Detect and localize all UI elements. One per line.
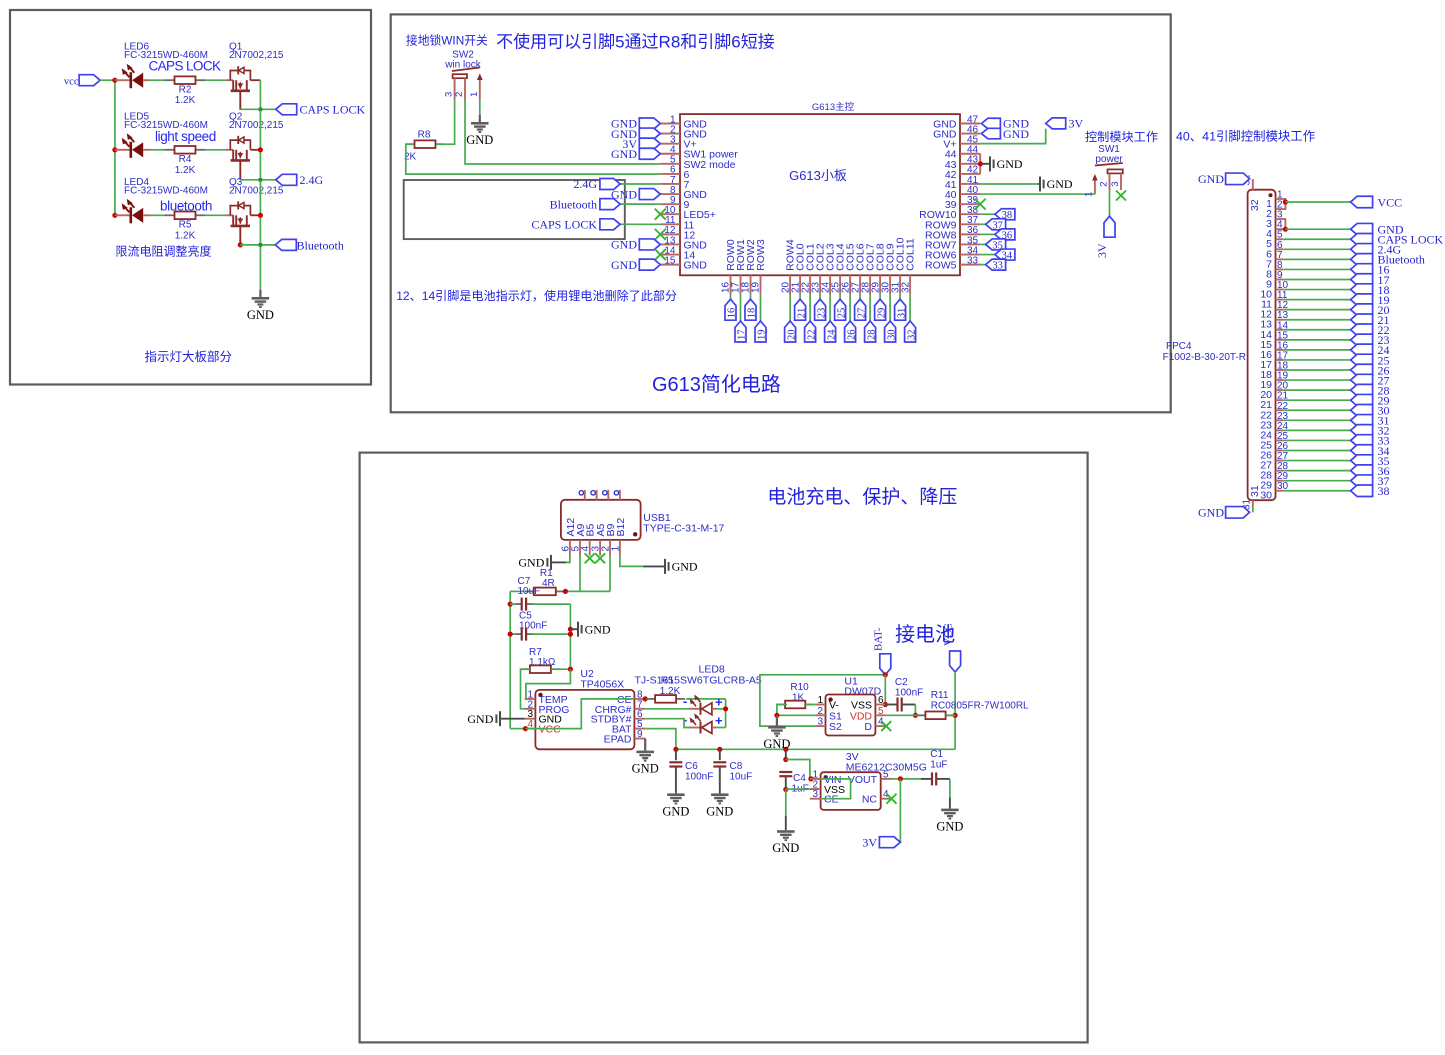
USB1 pin 6 A12 [569, 540, 571, 556]
ground GND box1 [259, 290, 261, 297]
svg-text:G613小板: G613小板 [789, 168, 847, 183]
net flag 18 [745, 299, 756, 320]
net flag 31 [895, 299, 906, 320]
net flag 37 [986, 219, 1006, 230]
net flag 30 [1351, 405, 1373, 417]
G613 pin 37 ROW9 [960, 223, 980, 225]
svg-text:20: 20 [786, 330, 797, 341]
wire FPC pin 26 to flag 34 [1283, 450, 1350, 452]
G613 pin 3 V+ [660, 143, 680, 145]
U2 pin 3 GND [525, 718, 536, 720]
G613 pin 36 ROW8 [960, 233, 980, 235]
svg-text:NC: NC [862, 794, 878, 806]
net flag Bluetooth [275, 239, 296, 250]
wire pin28 to flag [869, 294, 871, 321]
USB1 pin 1 B12 [619, 540, 621, 556]
svg-text:100nF: 100nF [895, 688, 923, 699]
net flag 24 [825, 321, 836, 342]
wire SW2 pin3 to R8 [436, 100, 455, 144]
wire FPC pin 19 to flag 27 [1283, 379, 1350, 381]
net flag 3V under SW1 [1104, 216, 1115, 237]
wire U2 pin9 EPAD to gnd [644, 739, 646, 751]
svg-text:TYPE-C-31-M-17: TYPE-C-31-M-17 [643, 523, 724, 535]
wire VCC flag down to bus [954, 672, 956, 749]
wire pin34 to flag [980, 254, 995, 256]
net flag 19 [1351, 294, 1373, 306]
svg-text:5: 5 [883, 769, 889, 780]
svg-text:10uF: 10uF [730, 772, 753, 783]
svg-text:GND: GND [706, 804, 733, 818]
FPC pin 6 [1276, 248, 1284, 250]
svg-text:控制模块工作: 控制模块工作 [1085, 130, 1158, 144]
net flag Bluetooth [1351, 254, 1373, 265]
net flag GND at G613 pin 2 [639, 128, 660, 139]
svg-text:3V: 3V [1095, 243, 1109, 258]
wire pin21 to flag [799, 294, 801, 299]
G613 pin 14 14 [660, 254, 680, 256]
wire CHRG# to LED8 d1 [645, 708, 689, 710]
wire USB pin5 down [579, 556, 581, 592]
net flag CAPS LOCK [1351, 233, 1373, 245]
FPC pin 26 [1276, 450, 1284, 452]
svg-text:16: 16 [727, 308, 738, 319]
FPC pin 29 [1276, 480, 1284, 482]
svg-text:GND: GND [672, 560, 698, 574]
G613 pin 30 COL9 [889, 275, 891, 294]
svg-text:100nF: 100nF [519, 621, 547, 632]
svg-text:+: + [715, 694, 723, 709]
net flag 23 [815, 299, 826, 320]
FPC pin 23 [1276, 419, 1284, 421]
U2 pin 4 VCC [525, 728, 536, 730]
svg-text:GND: GND [997, 157, 1023, 171]
FPC pin 5 [1276, 238, 1284, 240]
U1 pin 2 S1 [815, 714, 825, 716]
svg-text:12、14引脚是电池指示灯，使用锂电池删除了此部分: 12、14引脚是电池指示灯，使用锂电池删除了此部分 [396, 288, 677, 303]
U2 pin 9 EPAD [634, 738, 645, 740]
wire pin22 to flag [809, 294, 811, 321]
net flag 23 [1351, 334, 1373, 346]
svg-text:18: 18 [747, 308, 758, 319]
wire BAT- down to VSS [884, 675, 886, 705]
svg-text:30: 30 [886, 330, 897, 341]
svg-text:RC0805FR-7W100RL: RC0805FR-7W100RL [931, 701, 1029, 712]
U1 pin 5 VDD [875, 714, 885, 716]
wire pin35 to flag [980, 243, 985, 245]
wire C4 bottom to gnd [785, 790, 787, 816]
wire CE strap to VIN [821, 779, 851, 799]
net flag GND at G613 pin 8 [639, 189, 660, 200]
wire VOUT right [891, 778, 921, 780]
G613 pin 41 41 [960, 183, 980, 185]
svg-text:vcc: vcc [64, 76, 79, 87]
svg-text:SW2 mode: SW2 mode [684, 159, 736, 171]
U2 pin 5 BAT [634, 728, 645, 730]
right bus vertical C7-C5 [569, 604, 571, 669]
svg-text:4: 4 [580, 546, 591, 552]
net flag CAPS LOCK [276, 104, 297, 115]
resistor R5 1.2K [165, 214, 175, 216]
FPC pin 31 bottom [1252, 500, 1254, 508]
net flag 29 [875, 299, 886, 320]
svg-text:32: 32 [906, 330, 917, 341]
svg-text:FC-3215WD-460M: FC-3215WD-460M [124, 185, 208, 196]
net flag 30 [885, 321, 896, 342]
G613 pin 29 COL8 [879, 275, 881, 294]
USB1 pin 5 A9 [579, 540, 581, 556]
capacitor C6 100nF [675, 749, 677, 760]
svg-text:3: 3 [444, 92, 455, 97]
svg-text:1: 1 [469, 92, 480, 97]
svg-text:100nF: 100nF [685, 772, 713, 783]
svg-text:31: 31 [896, 308, 907, 319]
svg-text:ROW3: ROW3 [755, 239, 767, 271]
G613 pin 32 COL11 [909, 275, 911, 294]
frame: G613 main section [391, 14, 1171, 412]
svg-text:GND: GND [936, 820, 963, 834]
wire FPC pin 16 to flag 24 [1283, 349, 1350, 351]
power ground GND at U2 pin3 [500, 718, 525, 720]
G613 pin 28 COL7 [869, 275, 871, 294]
wire R10 left down to S1 [777, 705, 816, 716]
G613 pin 6 6 [660, 173, 680, 175]
ME6212 pin 1 VIN [810, 778, 821, 780]
svg-text:25: 25 [836, 308, 847, 319]
no-connect X at G613 pin 14 [655, 249, 666, 260]
G613 pin 24 COL3 [829, 275, 831, 294]
svg-text:light speed: light speed [155, 129, 216, 144]
no-connect X USB pin 4 [585, 553, 595, 563]
svg-text:31: 31 [1249, 485, 1261, 497]
svg-text:GND: GND [247, 308, 274, 322]
svg-text:限流电阻调整亮度: 限流电阻调整亮度 [116, 244, 212, 259]
net flag 35 [1351, 455, 1373, 467]
FPC pin 21 [1276, 399, 1284, 401]
net flag 26 [845, 321, 856, 342]
main battery bus [676, 748, 955, 750]
svg-text:38: 38 [1378, 484, 1390, 498]
net flag GND at G613 pin 15 [639, 259, 660, 270]
svg-text:10uF: 10uF [518, 586, 541, 597]
svg-text:VCC: VCC [1378, 195, 1403, 209]
svg-text:+: + [715, 713, 723, 728]
svg-text:3: 3 [817, 717, 823, 728]
svg-text:F1002-B-30-20T-R: F1002-B-30-20T-R [1163, 352, 1246, 363]
svg-text:S2: S2 [829, 721, 842, 733]
svg-text:TP4056X: TP4056X [580, 679, 624, 691]
wire pin32 to flag [909, 294, 911, 321]
net flag 21 [795, 299, 806, 320]
G613 pin 9 9 [660, 203, 680, 205]
wire FPC pin 10 to flag 18 [1283, 289, 1350, 291]
G613 pin 42 42 [960, 173, 980, 175]
ME6212 pin 5 VOUT [881, 778, 891, 780]
FPC pin 14 [1276, 329, 1284, 331]
svg-text:29: 29 [876, 308, 887, 319]
svg-text:2N7002,215: 2N7002,215 [229, 120, 284, 131]
wire R5 right to LED bus [686, 698, 726, 700]
svg-text:24: 24 [826, 329, 837, 340]
wire pin18 to flag [750, 294, 752, 299]
left vertical bus to VCC U2 [509, 591, 511, 728]
U2 pin 2 PROG [525, 708, 536, 710]
wire pin24 to flag [829, 294, 831, 321]
USB1 shield pin [619, 490, 621, 500]
wire R1 left to bus [510, 590, 524, 592]
svg-text:15: 15 [664, 255, 676, 266]
junction LED5 row [112, 147, 117, 152]
inner box around 2.4G Bluetooth CAPS LOCK flags [404, 180, 625, 239]
wire pin37 to flag [980, 223, 985, 225]
G613 pin 19 ROW3 [760, 275, 762, 294]
net flag 35 [986, 239, 1006, 250]
wire FPC pin 21 to flag 29 [1283, 399, 1350, 401]
connector USB1 TYPE-C-31-M-17 [561, 500, 641, 540]
svg-text:2: 2 [454, 92, 465, 97]
FPC pin 19 [1276, 379, 1284, 381]
net flag 16 [1351, 264, 1373, 276]
svg-text:Bluetooth: Bluetooth [297, 238, 344, 252]
svg-text:2: 2 [817, 706, 823, 717]
ME6212 pin 2 VSS [810, 788, 821, 790]
wire FPC pin 18 to flag 26 [1283, 369, 1350, 371]
wire LED bus right [725, 699, 727, 728]
wire Q1 drain to bus [250, 79, 260, 81]
svg-text:GND: GND [611, 147, 637, 161]
ME6212 pin 3 CE [810, 798, 821, 800]
net flag 20 [1351, 304, 1373, 316]
G613 pin 44 44 [960, 153, 980, 155]
svg-text:9: 9 [637, 729, 643, 740]
ground GND under EPAD [636, 751, 654, 762]
FPC pin 28 [1276, 470, 1284, 472]
U1 pin 4 D [875, 725, 885, 727]
wire pin40 long to SW1 [980, 193, 1095, 195]
svg-text:BAT-: BAT- [873, 627, 885, 651]
G613 pin 40 40 [960, 193, 980, 195]
svg-text:R4: R4 [179, 154, 192, 165]
svg-text:R8: R8 [418, 130, 431, 141]
svg-text:EPAD: EPAD [604, 734, 632, 746]
no-connect X at G613 pin 10 [655, 209, 666, 220]
wire FPC pin 13 to flag 21 [1283, 319, 1350, 321]
svg-text:1: 1 [817, 695, 823, 706]
net flag GND at G613 pin 47 [981, 118, 1000, 129]
G613 pin 39 39 [960, 203, 980, 205]
svg-text:1.2K: 1.2K [175, 165, 196, 176]
G613 pin 18 ROW2 [750, 275, 752, 294]
svg-text:32: 32 [1249, 199, 1261, 211]
G613 pin 22 COL1 [809, 275, 811, 294]
wire pin45 V+ to 3V flag [980, 129, 1045, 144]
wire FPC pin 15 to flag 23 [1283, 339, 1350, 341]
G613 pin 25 COL4 [839, 275, 841, 294]
svg-text:22: 22 [806, 330, 817, 341]
net flag 19 [755, 321, 766, 342]
svg-text:GND: GND [763, 737, 790, 751]
svg-text:GND: GND [585, 622, 611, 636]
wire LED to R5 [150, 214, 165, 216]
wire pin7 to 2.4G flag [620, 183, 660, 185]
gnd bus vertical [259, 80, 261, 290]
svg-text:21: 21 [796, 308, 807, 319]
wire FPC pin 5 to flag CAPS LOCK [1283, 238, 1350, 240]
G613 pin 10 LED5+ [660, 213, 680, 215]
LED LED5 [115, 149, 130, 151]
frame: indicator board section [10, 10, 371, 385]
FPC pin 25 [1276, 439, 1284, 441]
wire FPC pin 20 to flag 28 [1283, 389, 1350, 391]
svg-text:27: 27 [856, 308, 867, 319]
power ground GND left of USB [550, 555, 552, 570]
svg-text:D: D [864, 721, 872, 733]
wire VDD to R11 [885, 714, 925, 716]
G613 pin 47 GND [960, 123, 980, 125]
net flag GND bottom of FPC [1226, 507, 1250, 519]
junction LED4 row [112, 213, 117, 218]
net flag 36 [995, 229, 1015, 240]
junction C7 left [508, 602, 513, 607]
no-connect X at ME6212 NC [887, 794, 897, 804]
FPC pin 9 [1276, 278, 1284, 280]
wire FPC pin 9 to flag 17 [1283, 278, 1350, 280]
wire USB pin2 down [609, 556, 611, 592]
svg-text:33: 33 [992, 261, 1003, 272]
net flag GND at G613 pin 4 [639, 148, 660, 159]
G613 pin 12 12 [660, 233, 680, 235]
svg-text:FPC4: FPC4 [1166, 341, 1192, 352]
FPC pin 4 [1276, 228, 1284, 230]
wire pin11 to CAPS LOCK flag [620, 223, 660, 225]
wire C4 to VSS [786, 788, 821, 790]
wire pin25 to flag [839, 294, 841, 299]
svg-text:VOUT: VOUT [848, 774, 878, 786]
power ground GND right of C5 [570, 628, 578, 630]
FPC pin 32 top [1252, 179, 1254, 190]
wire U2 BAT to main bus [645, 729, 676, 750]
G613 pin 7 7 [660, 183, 680, 185]
net flag 20 [785, 321, 796, 342]
FPC pin 1 [1276, 198, 1284, 200]
wire FPC pins 3-4 to GND [1283, 219, 1285, 229]
capacitor C8 10uF [719, 749, 721, 760]
wire pin33 to flag [980, 264, 985, 266]
G613 pin 35 ROW7 [960, 243, 980, 245]
USB1 shield pin [596, 490, 598, 500]
net flag 31 [1351, 415, 1373, 427]
no-connect X at SW1 pin 3 [1116, 191, 1126, 201]
net flag 17 [735, 321, 746, 342]
svg-text:C2: C2 [895, 677, 908, 688]
FPC pin 22 [1276, 409, 1284, 411]
junction gnd stem [568, 627, 573, 632]
wire VOUT down to 3V flag [899, 779, 901, 842]
wire bus to U2 pin1 [526, 669, 571, 699]
wire pin31 to flag [899, 294, 901, 299]
svg-text:GND: GND [1198, 506, 1224, 520]
svg-text:GND: GND [1003, 127, 1029, 141]
svg-text:接地锁WIN开关: 接地锁WIN开关 [406, 34, 488, 48]
ME6212 pin 4 NC [881, 798, 891, 800]
power ground GND right of USB [664, 559, 666, 574]
power ground GND at pin 43 [980, 163, 990, 165]
net flag Bluetooth to pin9 [600, 199, 620, 210]
wire R7 right to bus [551, 668, 571, 670]
USB1 shield pin [584, 490, 586, 500]
net flag 34 [1351, 445, 1373, 457]
svg-text:6: 6 [878, 695, 884, 706]
net flag GND at G613 pin 46 [981, 128, 1000, 139]
LED LED6 [115, 79, 130, 81]
G613 pin 33 ROW5 [960, 264, 980, 266]
svg-text:17: 17 [737, 330, 748, 341]
net flag 28 [865, 321, 876, 342]
G613 pin 20 ROW4 [789, 275, 791, 294]
U2 pin 7 CHRG# [634, 708, 645, 710]
G613 pin 8 GND [660, 193, 680, 195]
svg-text:R5: R5 [179, 220, 192, 231]
U2 pin 8 CE [634, 698, 645, 700]
wire pin26 to flag [849, 294, 851, 321]
net flag 16 [725, 299, 736, 320]
svg-text:R10: R10 [790, 682, 809, 693]
U2 pin 1 TEMP [525, 698, 536, 700]
wire vcc to LED6 [100, 79, 115, 81]
svg-text:G613主控: G613主控 [812, 101, 855, 113]
svg-text:19: 19 [757, 330, 768, 341]
U1 pin 6 VSS [875, 704, 885, 706]
USB1 shield pin [607, 490, 609, 500]
net flag 2.4G [276, 174, 297, 185]
svg-text:TJ-S1615SW6TGLCRB-A5: TJ-S1615SW6TGLCRB-A5 [635, 675, 762, 687]
wire FPC pin 25 to flag 33 [1283, 439, 1350, 441]
wire LED to R2 [150, 79, 165, 81]
FPC pin 27 [1276, 460, 1284, 462]
net flag 36 [1351, 465, 1373, 477]
wire Q2 source to 2.4G flag [240, 179, 275, 181]
svg-text:R11: R11 [931, 690, 949, 701]
G613 pin 2 GND [660, 133, 680, 135]
LED8 diode 2 [689, 727, 700, 729]
ground GND under SW2 [471, 122, 489, 133]
no-connect X at pin 39 [975, 199, 986, 210]
net flag CAPS LOCK to pin11 [600, 219, 620, 230]
resistor R2 1.2K [165, 79, 175, 81]
net flag 38 [1351, 485, 1373, 497]
wire FPC pin 14 to flag 22 [1283, 329, 1350, 331]
junction C5 left [508, 632, 513, 637]
net flag 27 [855, 299, 866, 320]
svg-text:GND: GND [632, 762, 659, 776]
wire bus to C4 and VIN [785, 749, 787, 759]
G613 pin 5 SW2 mode [660, 163, 680, 165]
svg-text:CAPS LOCK: CAPS LOCK [149, 59, 221, 74]
wire FPC pin 28 to flag 36 [1283, 470, 1350, 472]
FPC pin 17 [1276, 359, 1284, 361]
net flag 27 [1351, 374, 1373, 386]
svg-text:1: 1 [1084, 192, 1095, 197]
G613 pin 34 ROW6 [960, 254, 980, 256]
svg-text:1.2K: 1.2K [175, 95, 196, 106]
wire Q3 drain to bus [250, 214, 260, 216]
net flag 3V top right [1046, 118, 1066, 129]
no-connect X at G613 pin 12 [655, 229, 666, 240]
svg-text:C4: C4 [793, 773, 806, 784]
wire SW2 pin1 to gnd [479, 100, 481, 115]
wire Q2 source to flag row [239, 178, 241, 181]
svg-text:2.4G: 2.4G [300, 173, 324, 187]
wire SW1 pin2 to 3V flag [1109, 190, 1111, 216]
